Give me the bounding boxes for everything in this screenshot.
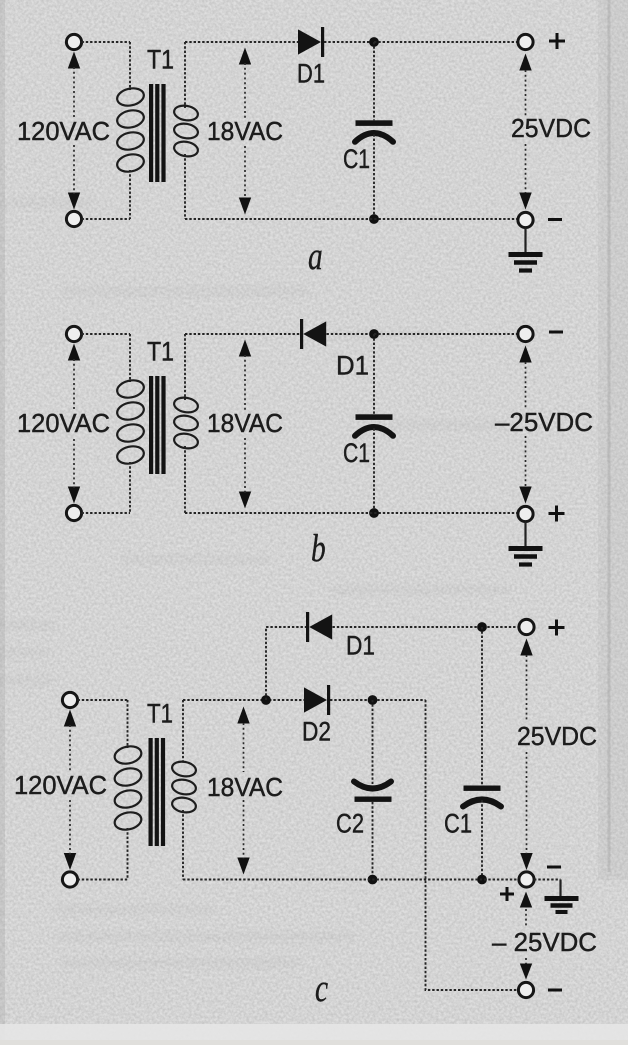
capacitor C2 wire	[372, 700, 374, 784]
wire	[373, 428, 375, 513]
svg-text:c: c	[315, 966, 328, 1010]
svg-text:T1: T1	[147, 699, 173, 729]
wire secondary top rail	[185, 333, 300, 335]
transformer T1 secondary winding	[184, 42, 186, 108]
svg-text:18VAC: 18VAC	[207, 116, 283, 146]
junction node branch to D1	[261, 695, 271, 705]
plus sign common	[500, 887, 514, 901]
120VAC arrow	[64, 710, 76, 727]
output voltage arrow	[519, 346, 531, 363]
svg-text:T1: T1	[147, 45, 174, 75]
wire	[82, 333, 131, 335]
120VAC arrow	[68, 344, 80, 361]
junction node top	[369, 329, 379, 339]
wire ground rail	[183, 879, 519, 881]
terminal -25 output	[518, 982, 533, 997]
transformer T1 core	[149, 738, 153, 846]
transformer T1 primary winding	[129, 334, 131, 382]
svg-text:120VAC: 120VAC	[17, 116, 110, 146]
wire branch up to D1 rail	[266, 627, 306, 700]
terminal input top (b)	[66, 326, 81, 341]
transformer T1 primary winding	[127, 700, 129, 748]
capacitor C1 plate -	[355, 133, 393, 142]
transformer T1 secondary winding	[184, 334, 186, 400]
transformer T1 primary winding	[129, 42, 131, 90]
capacitor C1 plate + (bar)	[464, 786, 501, 791]
svg-text:a: a	[308, 234, 323, 278]
terminal common output	[519, 872, 534, 887]
wire	[78, 699, 128, 701]
bottom light strip	[0, 1024, 628, 1040]
wire	[373, 42, 375, 120]
svg-text:D1: D1	[297, 59, 325, 89]
svg-text:18VAC: 18VAC	[207, 408, 283, 438]
120VAC arrow	[68, 52, 80, 69]
junction node C1 bottom	[477, 875, 487, 885]
wire	[82, 41, 131, 43]
svg-text:D2: D2	[302, 717, 331, 747]
ground symbol	[524, 228, 526, 255]
capacitor C1 wire	[481, 627, 483, 786]
terminal input bottom (c)	[62, 872, 77, 887]
terminal output bottom	[518, 212, 533, 227]
wire output top rail	[374, 41, 518, 43]
capacitor C1 plate +	[356, 414, 393, 420]
18VAC arrow	[239, 340, 251, 357]
transformer T1 secondary winding	[182, 700, 184, 764]
junction node bottom	[369, 214, 379, 224]
svg-text:– 25VDC: – 25VDC	[492, 927, 597, 957]
capacitor C1 plate +	[356, 120, 393, 126]
junction node C2 bottom	[368, 875, 378, 885]
page edge shading left	[0, 0, 5, 1040]
terminal +25 output	[519, 619, 534, 634]
junction node C2 top	[368, 695, 378, 705]
25VDC arrow	[520, 639, 532, 656]
diode D2	[304, 687, 327, 712]
svg-text:b: b	[311, 526, 326, 570]
wire	[82, 512, 131, 514]
-25VDC arrow up	[520, 892, 532, 908]
wire secondary to D2	[183, 699, 304, 701]
wire	[324, 41, 374, 43]
capacitor C2 plate + (bar)	[355, 797, 392, 802]
svg-text:D1: D1	[346, 631, 375, 661]
transformer T1 core	[149, 84, 153, 182]
wire	[372, 802, 374, 880]
wire output top rail	[374, 333, 518, 335]
terminal output top	[518, 326, 533, 341]
faint bleed-through texture	[0, 198, 510, 968]
label b (subfigure)	[311, 526, 326, 570]
wire to ground	[534, 879, 561, 881]
ground symbol	[545, 896, 579, 901]
output voltage arrow	[519, 54, 531, 71]
capacitor C2 plate - (arc)	[354, 782, 391, 789]
terminal input top (c)	[62, 692, 77, 707]
minus sign output bottom	[548, 218, 562, 221]
svg-text:C1: C1	[343, 438, 370, 468]
-25VDC arrow down	[525, 958, 527, 964]
junction node bottom	[369, 508, 379, 518]
transformer T1 core	[149, 376, 153, 474]
capacitor C1 plate -	[355, 427, 393, 436]
plus sign output bottom	[549, 506, 565, 522]
svg-text:120VAC: 120VAC	[17, 408, 110, 438]
wire secondary top rail	[185, 41, 298, 43]
diode D1	[300, 319, 303, 349]
svg-text:C1: C1	[444, 809, 472, 839]
label a (subfigure)	[308, 234, 323, 278]
18VAC arrow	[239, 48, 251, 65]
wire D2 output	[330, 699, 426, 701]
wire	[78, 879, 128, 881]
diode D1	[298, 29, 321, 54]
svg-text:25VDC: 25VDC	[517, 721, 597, 751]
wire	[373, 134, 375, 219]
wire	[327, 333, 375, 335]
ground symbol	[524, 522, 526, 549]
18VAC arrow	[237, 707, 249, 724]
minus sign output top	[549, 331, 563, 334]
wire output bottom rail	[185, 218, 518, 220]
wire	[373, 334, 375, 414]
diode D1	[306, 612, 309, 642]
svg-text:25VDC: 25VDC	[511, 113, 591, 143]
wire	[481, 800, 483, 880]
terminal input top (a)	[66, 34, 81, 49]
capacitor C1 plate - (arc)	[463, 800, 501, 807]
svg-text:C1: C1	[343, 144, 370, 174]
svg-text:–25VDC: –25VDC	[495, 407, 593, 437]
svg-text:C2: C2	[336, 809, 364, 839]
terminal output bottom	[518, 506, 533, 521]
terminal output top	[518, 34, 533, 49]
wire	[82, 218, 131, 220]
label c (subfigure)	[315, 966, 328, 1010]
junction node C1 top	[477, 622, 487, 632]
page edge shading right	[598, 0, 628, 880]
plus sign output top	[549, 33, 565, 49]
svg-text:D1: D1	[336, 351, 369, 381]
wire output bottom rail	[185, 512, 518, 514]
minus sign common	[547, 866, 561, 869]
plus sign	[549, 620, 565, 636]
svg-text:120VAC: 120VAC	[14, 770, 107, 800]
terminal input bottom (b)	[66, 505, 81, 520]
svg-text:T1: T1	[147, 337, 174, 367]
svg-text:18VAC: 18VAC	[207, 772, 283, 802]
wire D1 rail	[333, 626, 520, 628]
junction node top	[369, 37, 379, 47]
terminal input bottom (a)	[66, 211, 81, 226]
minus sign -25 output	[548, 989, 562, 992]
wire down to negative output	[426, 700, 520, 990]
